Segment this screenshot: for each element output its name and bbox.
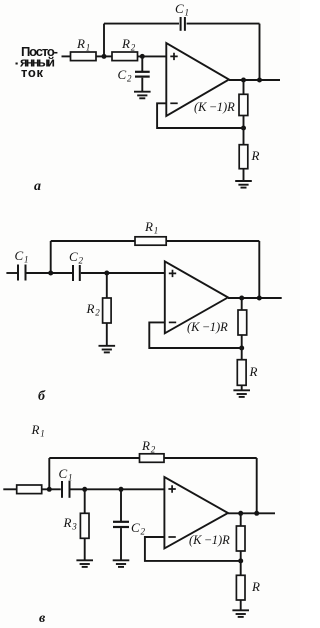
svg-text:C1: C1 — [175, 1, 189, 18]
node A5 (feedback junction) — [241, 126, 246, 131]
resistor R2 — [112, 36, 138, 61]
ground (under R c) — [232, 610, 249, 617]
wire: input to R1 — [62, 55, 71, 57]
resistor R — [239, 145, 259, 169]
resistor R1 (c, input box) — [17, 485, 42, 494]
capacitor C2 (b) — [69, 249, 83, 281]
svg-text:R: R — [251, 579, 260, 594]
op-amp U1 (c) — [164, 477, 228, 548]
wire: output to (K-1)R — [243, 80, 245, 94]
capacitor C1 (c) — [59, 466, 73, 498]
resistor R (b) — [237, 360, 257, 386]
wire: top rail left segment — [104, 23, 179, 25]
node B2 (junction C2/R2) — [104, 271, 109, 276]
node A4 (output / riser) — [257, 78, 262, 83]
resistor (K-1)R (c) — [189, 526, 245, 551]
svg-text:ток: ток — [21, 65, 43, 80]
wire: input stub — [6, 272, 17, 274]
node C6n (feedback junction c) — [238, 558, 243, 563]
wire: node C2n down to R3 — [84, 489, 86, 513]
svg-text:C2: C2 — [131, 520, 145, 537]
wire: feedback to inverting input — [157, 103, 243, 128]
node B1 (junction C1/C2/rail riser) — [48, 271, 53, 276]
node C2n (junction C1/R3) — [82, 487, 87, 492]
svg-text:(K −1)R: (K −1)R — [187, 320, 228, 334]
op-amp U1 — [166, 43, 229, 116]
wire: (K-1)R to node B5 — [241, 335, 243, 348]
wire: C1 to node B1 — [27, 272, 73, 274]
capacitor C2 (c) — [113, 489, 145, 560]
wire: R to ground — [243, 169, 245, 181]
wire: riser rail to output (b) — [258, 241, 260, 298]
wire: R1 to node C1n — [42, 488, 61, 490]
wire: top rail right segment (c) — [164, 457, 257, 459]
wire: top rail right segment (b) — [166, 240, 259, 242]
capacitor C2 — [118, 56, 150, 91]
svg-text:(K −1)R: (K −1)R — [189, 533, 230, 547]
node B4 (output / riser) — [257, 296, 262, 301]
wire: (K-1)R to node A5 — [243, 116, 245, 129]
node A1 (junction R1/R2/feedback riser) — [102, 54, 107, 59]
resistor R1 — [71, 36, 97, 61]
ground (under C2) — [134, 92, 151, 99]
wire: C2 to op-amp + input (b) — [81, 272, 165, 274]
svg-text:R2: R2 — [86, 301, 101, 318]
ground (under R b) — [233, 390, 250, 397]
svg-text:C2: C2 — [118, 67, 132, 84]
op-amp U1 (b) — [165, 261, 228, 333]
wire: riser node B1 to top rail — [50, 241, 52, 273]
svg-text:R: R — [251, 148, 260, 163]
svg-text:C1: C1 — [59, 466, 73, 483]
wire: R2 to op-amp + input — [138, 55, 167, 57]
resistor (K-1)R (b) — [187, 310, 247, 335]
svg-text:(K −1)R: (K −1)R — [194, 100, 235, 114]
resistor R3 — [63, 513, 90, 538]
wire: riser rail to output (c) — [256, 458, 258, 513]
wire: output to (K-1)R (c) — [240, 513, 242, 526]
wire: top rail right segment — [187, 23, 260, 25]
capacitor C1 (b) — [15, 248, 29, 281]
wire: node B2 down to R2 — [106, 273, 108, 298]
svg-text:а: а — [34, 179, 41, 194]
wire: R2 to ground (b) — [106, 323, 108, 346]
svg-text:R3: R3 — [63, 515, 78, 532]
wire: C1 to op-amp + input (c) — [71, 488, 165, 490]
wire: R3 to ground — [84, 538, 86, 560]
wire: R to ground (b) — [241, 385, 243, 390]
wire: top rail left segment (c) — [49, 457, 139, 459]
capacitor C1 — [175, 1, 189, 31]
svg-text:R1: R1 — [144, 219, 158, 236]
wire: node B5 to R (b) — [241, 348, 243, 360]
input label "Постоянный ток" — [16, 44, 59, 80]
svg-text:R1: R1 — [76, 36, 90, 53]
node C5n (output / riser) — [254, 511, 259, 516]
svg-text:б: б — [38, 389, 46, 404]
svg-text:R2: R2 — [121, 36, 136, 53]
wire: (K-1)R to node C6n — [240, 551, 242, 561]
node A3 (output / (K-1)R) — [241, 78, 246, 83]
wire: node C6n to R (c) — [240, 561, 242, 575]
wire: riser node C1n to top rail (c) — [48, 458, 50, 489]
wire: top rail left segment (b) — [51, 240, 135, 242]
wire: R to ground (c) — [240, 600, 242, 610]
wire: output to (K-1)R (b) — [241, 298, 243, 310]
wire: feedback to inverting input (c) — [145, 537, 241, 561]
wire: feedback to inverting input (b) — [149, 322, 241, 348]
resistor R1 (b) — [135, 219, 166, 245]
ground (under R3) — [76, 560, 93, 567]
resistor R2 (c) — [140, 438, 165, 462]
svg-text:R1: R1 — [31, 422, 45, 439]
wire: op-amp output — [229, 79, 280, 81]
wire: R1 to node A1 — [96, 55, 112, 57]
wire: riser from top rail down to output — [259, 24, 261, 80]
wire: node A5 to R — [243, 128, 245, 145]
wire: input stub (c) — [3, 488, 16, 490]
node B5 (feedback junction b) — [239, 346, 244, 351]
wire: op-amp output (c) — [228, 512, 275, 514]
node C4n (output / (K-1)R) — [238, 511, 243, 516]
resistor (K-1)R — [194, 94, 248, 115]
node A2 (junction R2/C2) — [140, 54, 145, 59]
wire: op-amp output (b) — [228, 297, 282, 299]
ground (under C2 c) — [113, 560, 130, 567]
node C3n (junction C2) — [119, 487, 124, 492]
node C1n (junction input/rail riser) — [47, 487, 52, 492]
node B3 (output / (K-1)R) — [239, 296, 244, 301]
svg-text:R2: R2 — [141, 438, 156, 455]
wire: feedback riser from node A1 to top rail — [103, 24, 105, 57]
ground (under R2) — [99, 346, 116, 353]
svg-text:в: в — [39, 611, 46, 626]
svg-text:C2: C2 — [69, 249, 83, 266]
svg-text:C1: C1 — [15, 248, 29, 265]
ground (under R) — [235, 181, 252, 188]
resistor R2 (b) — [86, 298, 112, 323]
svg-text:R: R — [249, 364, 258, 379]
resistor R (c) — [236, 575, 260, 600]
